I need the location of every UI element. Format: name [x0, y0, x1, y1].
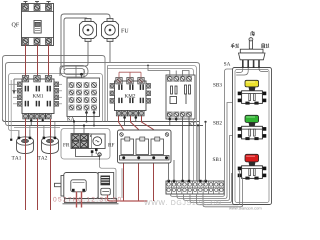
- partition around FR: [61, 129, 110, 160]
- label 停 (stop): [251, 31, 255, 36]
- FR bottom wires and dots: [76, 149, 100, 157]
- wire fuse2 bottom down: [109, 42, 111, 63]
- label FR: [63, 143, 69, 146]
- circuit breaker QF body: [22, 4, 54, 46]
- KM1 left side terminals: [18, 82, 23, 106]
- push button SB1 assembly: [238, 154, 267, 179]
- label RF: [108, 143, 114, 146]
- wire earth drop with arrow: [12, 79, 30, 95]
- push-button panel box: [233, 68, 272, 205]
- motor shaft: [55, 183, 64, 186]
- KM2 bottom black stems with dots: [124, 116, 126, 126]
- wire loop outer: left wall, top run, drop into partition: [3, 56, 106, 122]
- watermark corner: [229, 207, 261, 211]
- KM2 top terminals (red tinted): [116, 78, 144, 84]
- KT internal contacts: [170, 85, 191, 104]
- label SB1: [213, 158, 221, 161]
- wire loop capsule outer: [61, 66, 89, 78]
- XT top junction dots: [168, 180, 207, 182]
- wire inner loop capsule: [64, 69, 85, 75]
- wire bus B y=125.4: [8, 125, 203, 127]
- wire loop 4: short left vertical to ground dot: [10, 80, 12, 139]
- KT top terminal pads: [167, 76, 191, 81]
- KT top terminals: [168, 77, 192, 81]
- wire QF L1 to KM1 (red): [25, 45, 27, 77]
- watermark timestamp: [53, 197, 121, 202]
- SA body: [239, 53, 266, 60]
- KM1 bottom terminals: [23, 114, 51, 119]
- motor base: [65, 199, 117, 203]
- label KM1: [33, 94, 44, 97]
- SB1 mechanism: [249, 162, 256, 166]
- thermal relay FR terminal block: [71, 134, 89, 149]
- current transformer TA1: [17, 130, 34, 154]
- connector block: [101, 188, 111, 195]
- contactor KM1 body: [22, 79, 54, 114]
- XT cells and screws: [167, 181, 223, 194]
- red wire through TA1 re-draw: [25, 137, 27, 210]
- junction blob in capsule: [80, 73, 83, 76]
- SB1 red cap: [245, 154, 259, 162]
- KA top wire stubs: [75, 66, 77, 78]
- red wire through TA2 re-draw: [50, 137, 52, 210]
- RF sub-element 3: [151, 137, 164, 155]
- SA legs: [242, 60, 260, 66]
- wire loop 2: left wall, top run y=62.3, right wall to strip: [6, 63, 200, 182]
- wire to fuse1 top: [64, 18, 88, 70]
- label 自动 (auto): [262, 43, 269, 48]
- KT bottom terminals: [168, 112, 192, 116]
- SA top plate: [240, 49, 263, 53]
- label TA1: [12, 156, 21, 160]
- red wire from connector to bottom bus: [108, 195, 148, 201]
- motor wires red down: [76, 192, 78, 208]
- current transformer TA2: [42, 130, 59, 154]
- supply stub L2: [35, 2, 39, 6]
- FR top feed wires: [73, 122, 75, 134]
- QF bottom terminal 3: [46, 38, 52, 45]
- fan housing box: [98, 173, 114, 199]
- KM1 right side terminals: [54, 82, 59, 106]
- label SB2: [213, 121, 221, 124]
- partition wall left of KM2: [107, 66, 109, 122]
- KM1 left terminal stubs: [9, 84, 18, 104]
- vent grille: [101, 176, 111, 186]
- wire fuse1 bottom loop into KA area: [60, 42, 88, 77]
- watermark site: [144, 200, 220, 205]
- KM2 bottom terminals: [116, 111, 144, 116]
- QF bottom terminal 1: [23, 38, 29, 45]
- KM1 contact bars: [25, 86, 51, 107]
- terminal strip XT housing: [166, 181, 224, 194]
- wire riser to SB1 lower contact: [241, 178, 244, 207]
- fuse FU-1: [80, 19, 97, 42]
- motor terminal box: [71, 180, 86, 192]
- time relay KT body: [166, 75, 195, 119]
- contactor KM2 body: [115, 81, 147, 111]
- SB2 green cap: [245, 115, 259, 122]
- FR meter box: [89, 134, 106, 149]
- wire loop 3: hook to TA, left wall, top y=73.5, drop at x=102.6: [9, 74, 103, 131]
- label KT: [189, 122, 196, 125]
- QF top terminal 2: [34, 5, 40, 11]
- bundle wires strip to panel: [171, 69, 243, 207]
- relay KA body: [67, 78, 100, 117]
- label FU: [121, 29, 128, 33]
- wire to fuse2 top: [61, 14, 110, 66]
- fuse FU-2: [102, 19, 119, 42]
- label SB3: [213, 83, 221, 86]
- wire bus above TA: [14, 127, 60, 129]
- label KM2: [125, 94, 136, 97]
- label KA: [67, 117, 74, 120]
- RF corner screws: [120, 133, 169, 137]
- push button SB2 assembly: [238, 115, 267, 140]
- label 手动 (manual): [231, 44, 239, 48]
- label SA: [224, 62, 230, 65]
- RF sub-element 1: [121, 137, 134, 155]
- KT bottom terminal pads: [167, 112, 191, 117]
- KM1 right terminal stubs: [59, 84, 62, 104]
- QF top terminal 1: [23, 5, 29, 11]
- KM1 bottom red wires to TA: [25, 119, 27, 210]
- resistor box RF body: [118, 130, 172, 163]
- KT bottom wires: [169, 117, 171, 126]
- wire from RF area to strip: [168, 164, 170, 182]
- KM1 top terminals: [22, 76, 51, 82]
- wire riser to SB1 contacts: [238, 171, 240, 205]
- label QF: [12, 23, 19, 28]
- selector switch SA lever: [249, 38, 253, 49]
- SA leg wires into panel: [236, 68, 268, 76]
- motor front plate: [61, 176, 66, 197]
- KM2 red stubs above: [119, 72, 141, 77]
- wires from bus into strip: [197, 126, 199, 182]
- wire QF L3 to KM1 (red): [48, 45, 50, 77]
- KM2 contact bars: [118, 85, 144, 104]
- KA bottom junction dots: [85, 111, 88, 114]
- KM1 bottom black stems with junction dots: [31, 119, 43, 126]
- SB2 mechanism: [249, 123, 256, 127]
- SB3 mechanism: [249, 87, 256, 91]
- QF bottom terminal 2: [34, 38, 40, 45]
- wire TA secondary drops: [29, 125, 31, 130]
- supply stub L1: [24, 2, 28, 6]
- junction dots on buses: [147, 65, 149, 67]
- motor body: [64, 173, 98, 199]
- KM2 bottom red wires to RF: [119, 116, 124, 201]
- RF bottom junction dots: [122, 156, 125, 159]
- right nested corner wires: [108, 66, 197, 182]
- KT top wires: [148, 65, 189, 77]
- RF sub-element 2: [136, 137, 149, 155]
- KA terminal grid 4x4: [69, 82, 97, 110]
- wire bus A y=121.8: [3, 119, 200, 121]
- supply stub L3: [47, 2, 51, 6]
- wire QF L2 to KM1 (red): [37, 45, 39, 77]
- push button SB3 assembly: [238, 80, 267, 104]
- wire FR to motor drops: [100, 160, 117, 198]
- SB3 yellow cap: [245, 80, 259, 87]
- KM2 right side terminals: [146, 84, 151, 104]
- RF bottom bar: [120, 156, 170, 161]
- wire KT feed horizontal: [147, 65, 149, 70]
- QF top terminal 3: [46, 5, 52, 11]
- KM2 left side terminals: [110, 84, 115, 104]
- label TA2: [38, 156, 48, 160]
